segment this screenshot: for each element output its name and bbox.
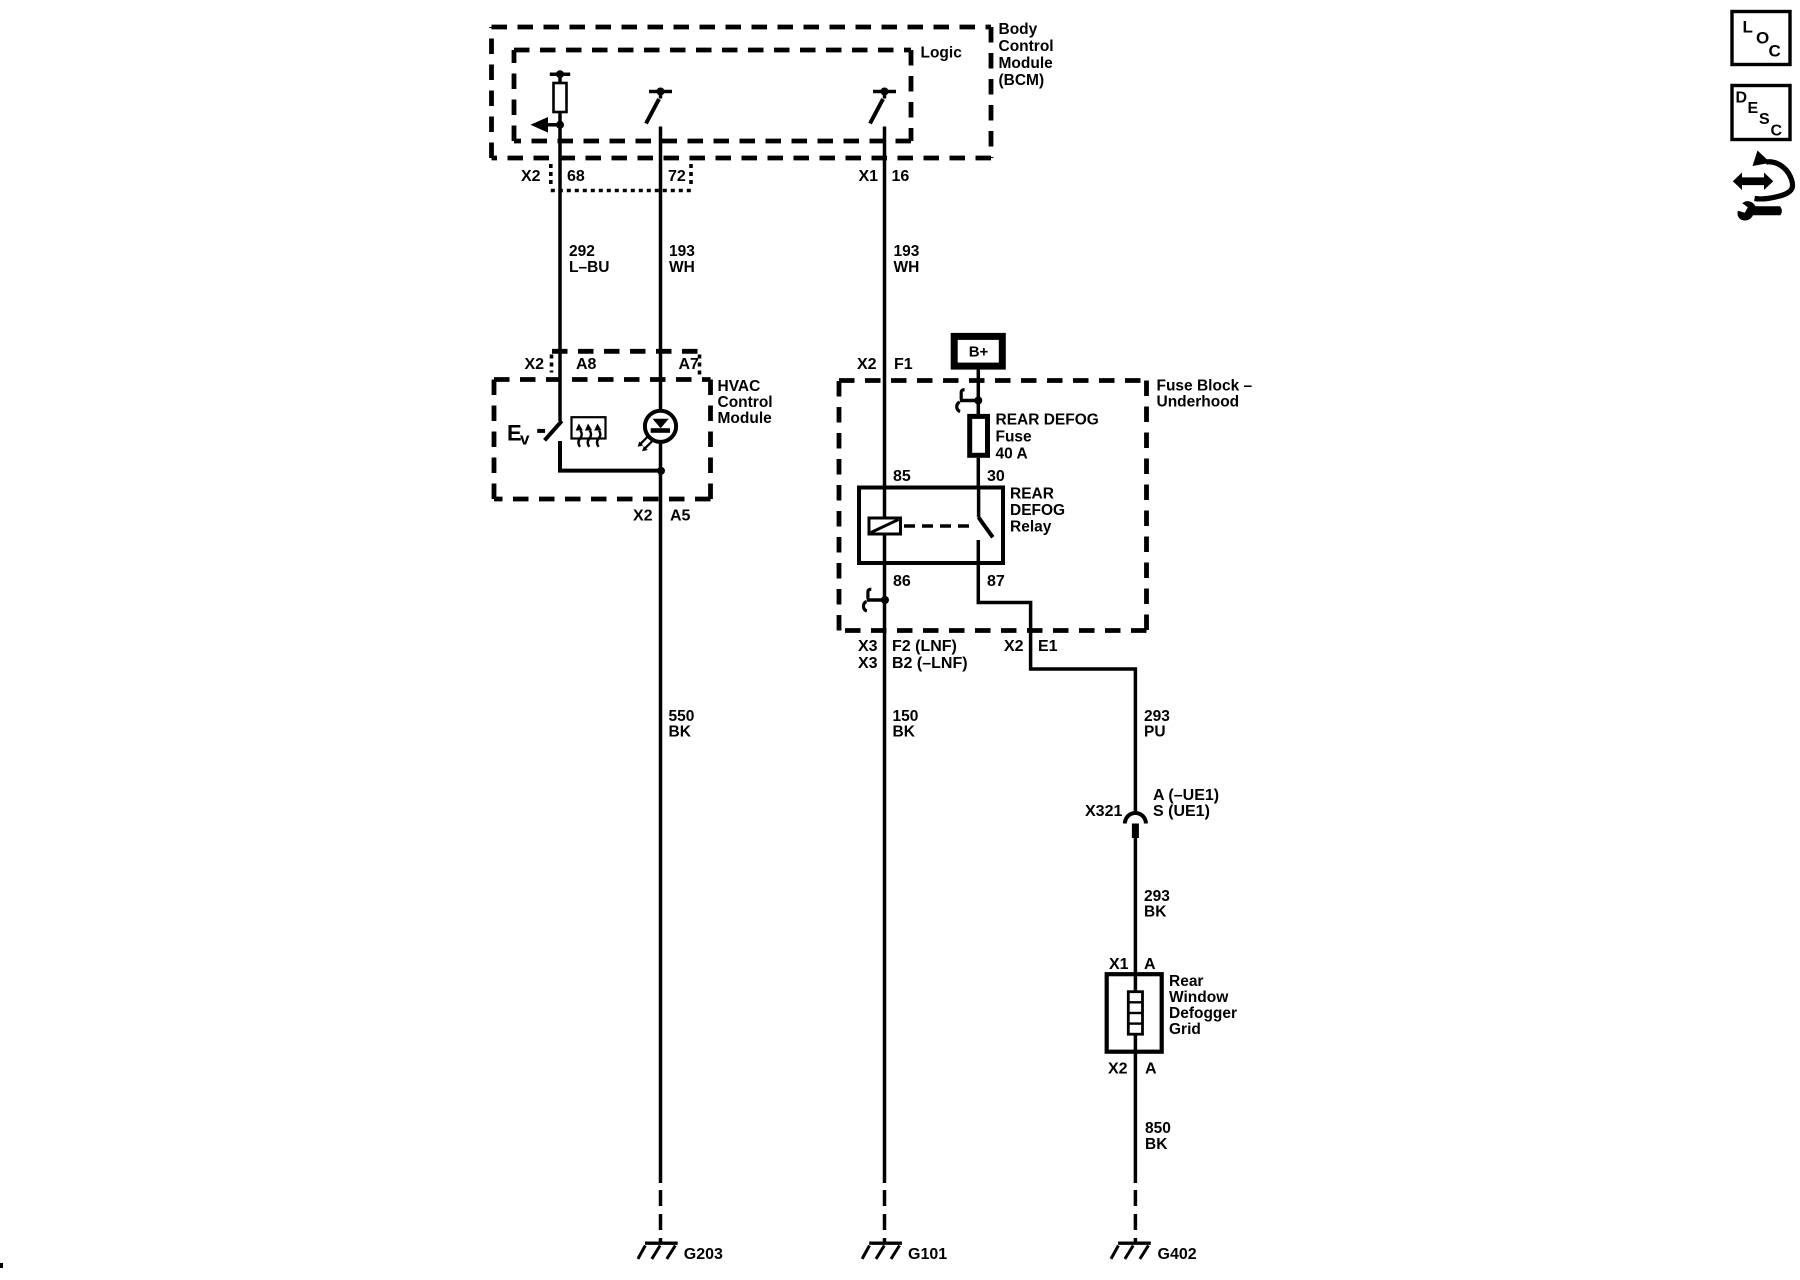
- svg-text:40 A: 40 A: [996, 446, 1028, 463]
- svg-text:X2: X2: [1108, 1061, 1128, 1078]
- svg-text:Relay: Relay: [1010, 519, 1052, 536]
- svg-text:L–BU: L–BU: [569, 259, 609, 276]
- svg-text:BK: BK: [669, 724, 692, 741]
- wire 193 WH (BCM 72 to HVAC A7): [659, 127, 663, 412]
- svg-text:Defogger: Defogger: [1169, 1005, 1237, 1022]
- wire 293 BK (X321 to defogger grid): [1134, 838, 1138, 1052]
- wire dashed to ground G402: [1134, 1190, 1138, 1243]
- splice X321: [1085, 787, 1219, 838]
- svg-text:Fuse: Fuse: [996, 429, 1033, 446]
- svg-text:30: 30: [987, 468, 1005, 485]
- label HVAC Control Module: [718, 378, 773, 427]
- svg-text:550: 550: [669, 708, 695, 725]
- svg-text:C: C: [1769, 42, 1781, 61]
- svg-text:X2: X2: [857, 356, 877, 373]
- label 193 WH left: [669, 243, 695, 276]
- svg-text:193: 193: [894, 243, 920, 260]
- svg-text:B+: B+: [969, 344, 989, 361]
- svg-text:293: 293: [1144, 708, 1170, 725]
- junction node A5: [657, 467, 665, 475]
- svg-text:X2: X2: [521, 168, 541, 185]
- relay coil: [869, 518, 901, 534]
- svg-text:Module: Module: [999, 55, 1054, 72]
- svg-text:REAR DEFOG: REAR DEFOG: [996, 412, 1099, 429]
- svg-text:F2 (LNF): F2 (LNF): [892, 638, 957, 655]
- connector X2 pin label A5: [633, 508, 691, 525]
- svg-text:BK: BK: [893, 724, 916, 741]
- relay switch contacts 30/87: [978, 488, 993, 564]
- svg-text:A7: A7: [679, 356, 700, 373]
- connector X2 pin label F1: [857, 356, 913, 373]
- module box HVAC Control Module: [494, 380, 711, 500]
- connector X2 pin label E1: [1004, 638, 1058, 655]
- svg-text:O: O: [1756, 29, 1769, 48]
- svg-text:193: 193: [669, 243, 695, 260]
- label 850 BK: [1145, 1120, 1171, 1153]
- battery feed B+: [954, 336, 1002, 366]
- svg-text:E1: E1: [1038, 638, 1058, 655]
- wire 850 BK (grid to G402): [1134, 1052, 1138, 1183]
- label 292 L-BU: [569, 243, 609, 276]
- LED indicator (rear defog lamp): [638, 411, 677, 452]
- svg-text:Rear: Rear: [1169, 973, 1203, 990]
- svg-text:Logic: Logic: [921, 45, 963, 62]
- logic box: [514, 50, 911, 141]
- resistor (BCM internal pull-up): [550, 70, 570, 125]
- svg-text:A: A: [1145, 1061, 1157, 1078]
- svg-text:BK: BK: [1144, 904, 1167, 921]
- svg-text:A: A: [1144, 956, 1156, 973]
- label REAR DEFOG Relay: [1010, 486, 1065, 536]
- LOC legend box: [1732, 12, 1790, 65]
- svg-text:X1: X1: [1109, 956, 1129, 973]
- svg-text:X3: X3: [858, 638, 878, 655]
- bussed connection symbol at relay 86: [863, 589, 889, 611]
- connector pin labels X3 F2/B2: [858, 638, 968, 672]
- svg-text:Module: Module: [718, 410, 773, 427]
- svg-text:S: S: [1759, 111, 1770, 128]
- ground G402: [1111, 1243, 1197, 1263]
- relay REAR DEFOG box: [859, 488, 1003, 564]
- heating element: [1128, 992, 1142, 1034]
- svg-text:Body: Body: [999, 21, 1038, 38]
- svg-text:Underhood: Underhood: [1157, 394, 1240, 411]
- bussed connection symbol at fuse: [957, 390, 983, 412]
- connector X1 pin label A: [1109, 956, 1156, 973]
- fuse block box: [839, 381, 1147, 631]
- svg-text:X1: X1: [859, 168, 879, 185]
- wire 292 L-BU (BCM X2-68 to HVAC A8): [558, 125, 562, 421]
- svg-text:E: E: [1748, 100, 1759, 117]
- relay actuation dashed link: [904, 524, 974, 527]
- wire relay 87 to X2 E1 jog: [978, 563, 1135, 814]
- ground G203: [638, 1243, 723, 1263]
- wire dashed to ground G101: [883, 1190, 887, 1243]
- relay pin labels 86 / 87: [893, 573, 1005, 590]
- svg-text:850: 850: [1145, 1120, 1171, 1137]
- label 293 BK: [1144, 888, 1170, 921]
- label 150 BK: [893, 708, 919, 741]
- connector X2 pin labels A8 / A7: [525, 351, 701, 378]
- ground G101: [862, 1243, 947, 1263]
- wire 193 WH (BCM X1-16 to fuse block F1): [883, 127, 887, 519]
- svg-text:293: 293: [1144, 888, 1170, 905]
- wire fuse to relay 30: [977, 458, 981, 488]
- page artifact dot: [0, 1263, 3, 1268]
- wire 550 BK (HVAC A5 to G203): [659, 442, 663, 1183]
- switch (rear defog request, HVAC): [545, 421, 662, 471]
- fuse REAR DEFOG 40A: [970, 416, 988, 455]
- svg-text:X2: X2: [525, 356, 545, 373]
- switch (BCM driver pin 72): [646, 88, 672, 124]
- heated rear window symbol: [572, 417, 606, 447]
- svg-text:85: 85: [893, 468, 911, 485]
- switch (BCM driver pin X1 16): [870, 88, 896, 124]
- svg-text:72: 72: [668, 168, 686, 185]
- svg-text:68: 68: [567, 168, 585, 185]
- svg-text:C: C: [1771, 123, 1783, 140]
- svg-text:B2 (–LNF): B2 (–LNF): [892, 655, 968, 672]
- diagnostic icon (arrows and wrench): [1733, 151, 1793, 221]
- svg-text:Grid: Grid: [1169, 1021, 1201, 1038]
- DESC legend box: [1732, 86, 1790, 140]
- wire B+ to fuse: [977, 370, 981, 414]
- svg-text:A5: A5: [670, 508, 691, 525]
- svg-text:87: 87: [987, 573, 1005, 590]
- svg-text:WH: WH: [894, 259, 920, 276]
- connector X2 pin labels 68 / 72: [521, 164, 691, 191]
- svg-text:Window: Window: [1169, 989, 1229, 1006]
- junction node pin 68: [556, 121, 564, 129]
- label REAR DEFOG Fuse 40 A: [996, 412, 1099, 463]
- svg-text:D: D: [1736, 90, 1748, 107]
- label Rear Window Defogger Grid: [1169, 973, 1237, 1038]
- svg-text:292: 292: [569, 243, 595, 260]
- svg-text:WH: WH: [669, 259, 695, 276]
- wire 150 BK (relay 86 to G101): [883, 534, 887, 1183]
- svg-text:F1: F1: [894, 356, 913, 373]
- svg-text:X2: X2: [1004, 638, 1024, 655]
- wire dashed to ground G203: [659, 1190, 663, 1243]
- svg-text:150: 150: [893, 708, 919, 725]
- label Body Control Module (BCM): [999, 21, 1054, 89]
- svg-text:X2: X2: [633, 508, 653, 525]
- label Fuse Block - Underhood: [1157, 378, 1253, 411]
- svg-text:BK: BK: [1145, 1136, 1168, 1153]
- svg-text:PU: PU: [1144, 724, 1166, 741]
- svg-text:L: L: [1743, 18, 1753, 37]
- svg-text:A8: A8: [576, 356, 597, 373]
- svg-text:REAR: REAR: [1010, 486, 1054, 503]
- svg-text:Control: Control: [718, 394, 773, 411]
- component box Rear Window Defogger Grid: [1107, 974, 1162, 1051]
- svg-text:Fuse Block –: Fuse Block –: [1157, 378, 1253, 395]
- svg-text:S (UE1): S (UE1): [1153, 803, 1210, 820]
- svg-text:G402: G402: [1158, 1246, 1197, 1263]
- svg-text:X321: X321: [1085, 803, 1122, 820]
- svg-text:G203: G203: [684, 1246, 723, 1263]
- svg-text:86: 86: [893, 573, 911, 590]
- relay pin labels 85 / 30: [893, 468, 1005, 485]
- connector X1 pin label 16: [859, 168, 910, 185]
- svg-text:Control: Control: [999, 38, 1054, 55]
- svg-text:X3: X3: [858, 655, 878, 672]
- label 193 WH right: [894, 243, 920, 276]
- svg-text:A (–UE1): A (–UE1): [1153, 787, 1219, 804]
- svg-text:v: v: [520, 430, 530, 449]
- svg-text:(BCM): (BCM): [999, 72, 1045, 89]
- label 293 PU: [1144, 708, 1170, 741]
- svg-text:HVAC: HVAC: [718, 378, 761, 395]
- label 550 BK: [669, 708, 695, 741]
- svg-text:G101: G101: [908, 1246, 947, 1263]
- module box BCM: [492, 27, 992, 158]
- svg-text:DEFOG: DEFOG: [1010, 502, 1065, 519]
- svg-text:16: 16: [892, 168, 910, 185]
- actuator label Ev: [507, 420, 545, 448]
- arrow (output driver): [531, 117, 561, 133]
- connector X2 pin label A: [1108, 1061, 1157, 1078]
